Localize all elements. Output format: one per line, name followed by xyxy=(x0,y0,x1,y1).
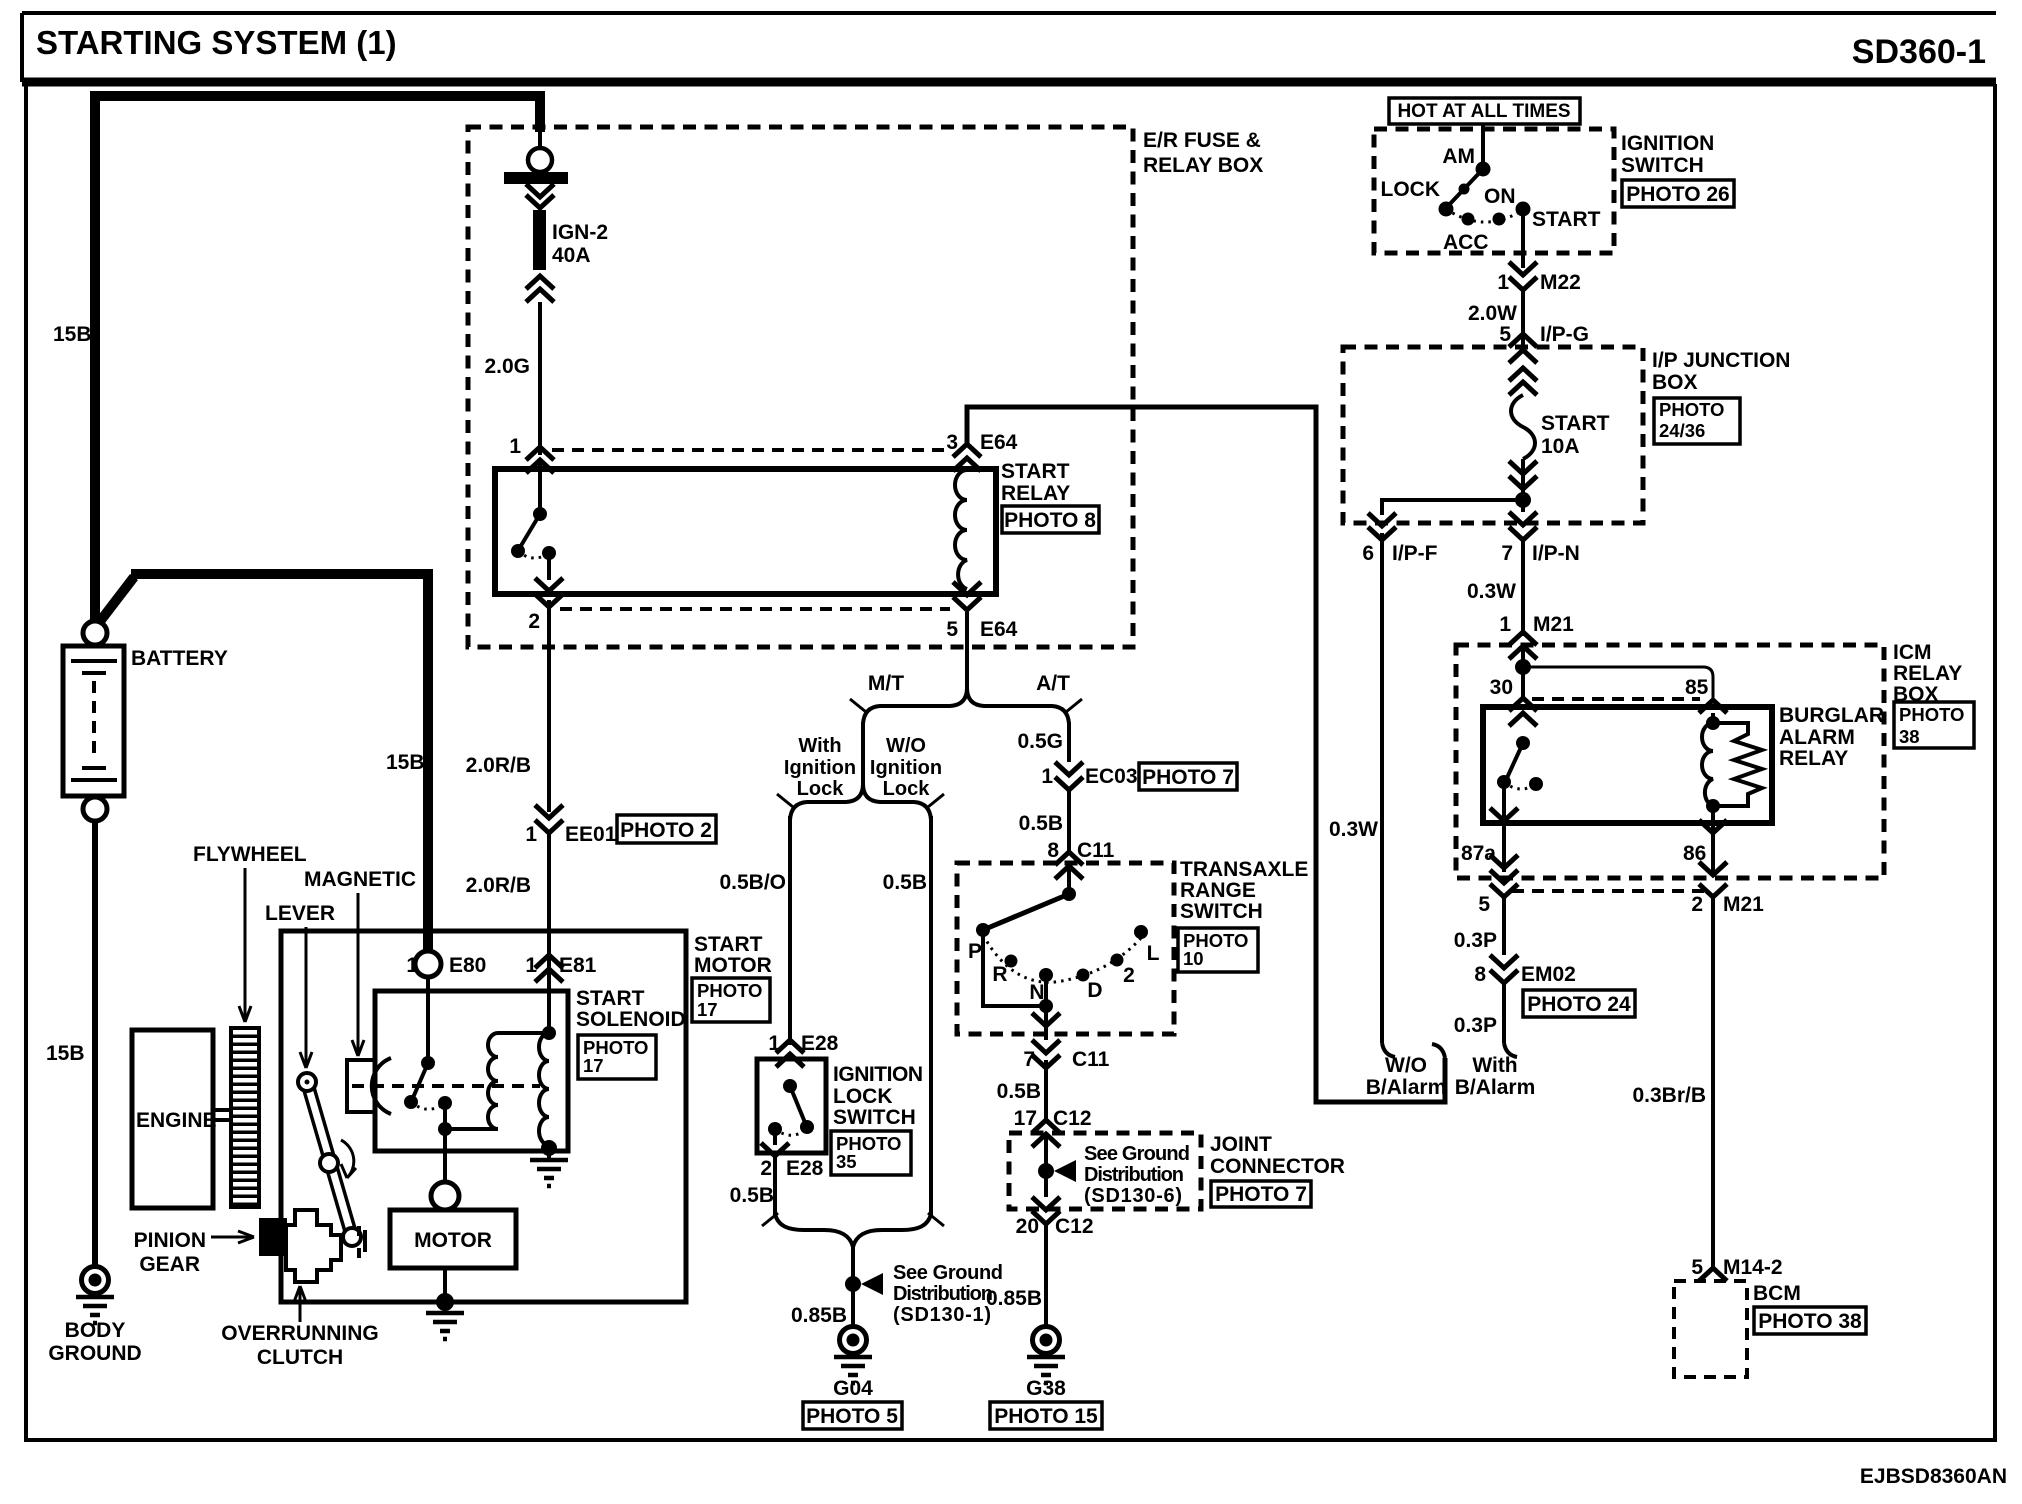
solenoid junction to coils xyxy=(438,1103,498,1136)
svg-text:START: START xyxy=(1001,460,1070,483)
svg-text:E64: E64 xyxy=(980,618,1018,641)
motor box xyxy=(390,1210,516,1268)
svg-text:C11: C11 xyxy=(1077,839,1115,862)
svg-text:17: 17 xyxy=(583,1055,604,1076)
ignition lock switch box xyxy=(757,1059,826,1153)
label box PHOTO 24/36 xyxy=(1654,398,1740,444)
fuse holder chevrons xyxy=(526,184,554,197)
engine box xyxy=(132,1030,213,1208)
wire I/P-F down to alarm select xyxy=(1380,533,1384,1043)
label W/O B/Alarm xyxy=(1366,1054,1447,1099)
svg-text:0.85B: 0.85B xyxy=(791,1304,847,1327)
svg-text:3: 3 xyxy=(946,431,958,454)
svg-text:17: 17 xyxy=(697,999,718,1020)
relay coil xyxy=(953,444,981,610)
label ICM RELAY BOX xyxy=(1893,641,1962,706)
pin 3 E64 labels xyxy=(946,431,1017,454)
E28 pin1 labels xyxy=(768,1032,838,1055)
svg-text:E80: E80 xyxy=(449,954,486,977)
svg-text:0.85B: 0.85B xyxy=(986,1287,1042,1310)
I/P-G pin5 labels xyxy=(1499,323,1589,346)
contact D xyxy=(1077,969,1090,982)
label IGN-2 40A xyxy=(552,221,608,267)
label BODY GROUND xyxy=(48,1319,141,1365)
ground symbol G04 xyxy=(834,1357,872,1383)
contact N xyxy=(1039,968,1053,982)
svg-text:C11: C11 xyxy=(1072,1048,1110,1071)
label See Ground Distribution (SD130-1) xyxy=(893,1262,1003,1326)
svg-text:LEVER: LEVER xyxy=(265,902,335,925)
ICM relay box (dashed) xyxy=(1456,645,1884,878)
E81 labels xyxy=(525,954,596,977)
svg-text:START: START xyxy=(694,933,763,956)
hook bottom of I/P-F wire xyxy=(1382,1043,1395,1057)
svg-text:STARTING SYSTEM (1): STARTING SYSTEM (1) xyxy=(36,24,397,61)
wire 15B battery to start motor E80 (thick) xyxy=(98,574,428,950)
label JOINT CONNECTOR xyxy=(1210,1133,1345,1178)
label START RELAY xyxy=(1001,460,1070,505)
relay socket frame xyxy=(1523,667,1713,700)
C11 pin7 labels xyxy=(1023,1048,1109,1071)
svg-text:86: 86 xyxy=(1683,842,1706,865)
M14-2 chevron xyxy=(1699,1268,1727,1281)
svg-text:R: R xyxy=(992,963,1007,986)
svg-text:M21: M21 xyxy=(1533,613,1574,636)
svg-text:A/T: A/T xyxy=(1036,672,1070,695)
EE01 labels xyxy=(525,823,616,846)
fuse bottom chevrons xyxy=(1509,461,1537,489)
svg-text:10: 10 xyxy=(1183,948,1204,969)
C12 pin17 chevrons xyxy=(1032,1120,1060,1147)
label box PHOTO 8 xyxy=(1002,506,1099,533)
battery bottom terminal xyxy=(83,797,107,821)
svg-text:0.5B: 0.5B xyxy=(883,871,927,894)
svg-text:2: 2 xyxy=(1123,964,1135,987)
EM02 labels xyxy=(1474,963,1576,986)
svg-text:EJBSD8360AN: EJBSD8360AN xyxy=(1860,1465,2007,1488)
label box PHOTO 38 bcm xyxy=(1754,1307,1866,1334)
engine flywheel link xyxy=(213,1110,230,1120)
svg-text:BOX: BOX xyxy=(1652,371,1698,394)
label box PHOTO 38 icm xyxy=(1894,702,1974,748)
fuse bottom chevrons xyxy=(526,276,554,289)
battery B1 xyxy=(63,646,124,796)
label IGNITION LOCK SWITCH xyxy=(833,1063,923,1129)
svg-text:CLUTCH: CLUTCH xyxy=(257,1346,343,1369)
svg-text:LOCK: LOCK xyxy=(1381,178,1441,201)
svg-text:EC03: EC03 xyxy=(1085,765,1138,788)
pin 86 chevrons xyxy=(1699,806,1727,875)
label START 10A xyxy=(1541,412,1610,458)
svg-text:(SD130-1): (SD130-1) xyxy=(893,1304,991,1326)
svg-text:1: 1 xyxy=(1497,271,1509,294)
pin 85 chevron xyxy=(1699,700,1727,713)
svg-text:M22: M22 xyxy=(1540,271,1581,294)
dashed link pin2 to pin5 xyxy=(560,607,950,611)
HOT AT ALL TIMES box xyxy=(1389,98,1580,124)
svg-text:E81: E81 xyxy=(559,954,597,977)
svg-text:1: 1 xyxy=(509,435,521,458)
svg-text:40A: 40A xyxy=(552,244,591,267)
label START SOLENOID xyxy=(576,987,686,1031)
svg-text:Distribution: Distribution xyxy=(1084,1164,1184,1186)
M22 labels xyxy=(1497,271,1581,294)
svg-text:I/P-F: I/P-F xyxy=(1392,542,1438,565)
ignition switch contacts xyxy=(1439,162,1531,226)
burglar relay coil xyxy=(1702,713,1720,813)
dashed link 30 to 85 xyxy=(1532,697,1700,701)
ignition switch position labels xyxy=(1381,145,1601,254)
svg-text:BCM: BCM xyxy=(1753,1282,1801,1305)
svg-text:2.0G: 2.0G xyxy=(484,355,530,378)
contact R xyxy=(1005,955,1018,968)
svg-text:5: 5 xyxy=(946,618,958,641)
svg-text:Lock: Lock xyxy=(883,778,931,800)
M21 pin5 pin2 labels xyxy=(1478,893,1764,916)
transaxle contact arc xyxy=(983,935,1141,982)
svg-text:Lock: Lock xyxy=(797,778,845,800)
pin 87a 86 labels xyxy=(1461,842,1706,865)
connector E28 pin1 chevrons xyxy=(776,1040,804,1067)
svg-text:I/P-N: I/P-N xyxy=(1532,542,1580,565)
svg-text:1: 1 xyxy=(525,823,537,846)
svg-text:17: 17 xyxy=(1014,1107,1037,1130)
wire EM02 to alarm select xyxy=(1502,983,1506,1043)
svg-text:0.5G: 0.5G xyxy=(1017,730,1063,753)
burglar alarm relay box xyxy=(1483,707,1772,823)
wire with-lock branch down to E28 xyxy=(788,816,792,1045)
svg-text:PHOTO 8: PHOTO 8 xyxy=(1004,509,1096,532)
svg-text:START: START xyxy=(1541,412,1610,435)
wire w/o-lock branch down to merge xyxy=(929,816,933,1218)
lever arm xyxy=(298,1073,361,1246)
svg-text:0.5B: 0.5B xyxy=(997,1080,1041,1103)
svg-text:RELAY: RELAY xyxy=(1893,662,1962,685)
lever rotation arrow xyxy=(341,1140,356,1178)
svg-text:B/Alarm: B/Alarm xyxy=(1366,1076,1447,1099)
svg-text:E/R FUSE &: E/R FUSE & xyxy=(1143,129,1261,152)
start solenoid box xyxy=(375,991,568,1151)
svg-text:5: 5 xyxy=(1499,323,1511,346)
wire battery negative to body ground xyxy=(92,821,98,1266)
solenoid pull-in coil xyxy=(488,1033,549,1129)
svg-text:MAGNETIC: MAGNETIC xyxy=(304,868,416,891)
wire solenoid to motor xyxy=(443,1129,447,1182)
svg-text:0.3P: 0.3P xyxy=(1454,929,1497,952)
label box PHOTO 2 xyxy=(617,815,716,843)
svg-text:EM02: EM02 xyxy=(1521,963,1576,986)
svg-text:20: 20 xyxy=(1016,1215,1039,1238)
svg-text:M21: M21 xyxy=(1723,893,1764,916)
svg-text:I/P JUNCTION: I/P JUNCTION xyxy=(1652,349,1790,372)
wire fuse to junction dot xyxy=(1521,459,1525,512)
wire relay pin2 down to EE01 xyxy=(547,600,551,812)
svg-text:G04: G04 xyxy=(833,1377,873,1400)
fuse START 10A xyxy=(1511,395,1535,459)
svg-text:2: 2 xyxy=(1691,893,1703,916)
label box PHOTO 24 xyxy=(1523,990,1635,1017)
svg-text:GEAR: GEAR xyxy=(139,1253,200,1276)
svg-text:35: 35 xyxy=(836,1151,857,1172)
svg-text:G38: G38 xyxy=(1026,1377,1066,1400)
svg-text:L: L xyxy=(1147,942,1160,965)
overrunning clutch assembly xyxy=(286,1210,365,1282)
svg-text:With: With xyxy=(798,735,841,757)
mechanical link dashed xyxy=(352,1084,540,1088)
connector pin1 chevrons xyxy=(526,447,554,460)
svg-text:START: START xyxy=(576,987,645,1010)
burglar relay switch xyxy=(1490,736,1543,821)
fuse terminal circle xyxy=(528,148,552,172)
body ground terminal xyxy=(82,1267,109,1294)
svg-text:START: START xyxy=(1532,208,1601,231)
svg-text:IGNITION: IGNITION xyxy=(833,1063,923,1086)
I/P-F labels xyxy=(1362,542,1437,565)
svg-text:8: 8 xyxy=(1047,839,1059,862)
svg-text:38: 38 xyxy=(1899,726,1920,747)
svg-text:Distribution: Distribution xyxy=(893,1283,993,1305)
svg-text:OVERRUNNING: OVERRUNNING xyxy=(221,1322,379,1345)
svg-text:1: 1 xyxy=(525,954,537,977)
svg-text:0.5B: 0.5B xyxy=(730,1184,774,1207)
svg-text:ON: ON xyxy=(1484,185,1516,208)
junction dot IP xyxy=(1515,492,1531,508)
wire E81 into solenoid xyxy=(542,972,556,1040)
label box PHOTO 5 xyxy=(803,1402,902,1429)
dashed link pin1 to pin3 xyxy=(552,448,950,452)
solenoid hold coil xyxy=(539,1033,549,1145)
svg-text:E28: E28 xyxy=(786,1157,824,1180)
svg-text:IGNITION: IGNITION xyxy=(1621,132,1714,155)
svg-text:RANGE: RANGE xyxy=(1180,879,1256,902)
M21 pin1 chevrons xyxy=(1509,632,1537,659)
page frame title band xyxy=(22,13,1996,82)
I/P-G connector chevrons xyxy=(1509,334,1537,395)
svg-text:10A: 10A xyxy=(1541,435,1580,458)
wire EC03 to C11 xyxy=(1067,790,1071,852)
svg-text:1: 1 xyxy=(1041,765,1053,788)
wire fuse to relay pin 1 xyxy=(538,302,542,455)
svg-text:PHOTO: PHOTO xyxy=(1659,399,1724,420)
svg-text:8: 8 xyxy=(1474,963,1486,986)
battery top terminal xyxy=(83,621,107,645)
hook top of riser xyxy=(1432,1044,1445,1058)
svg-text:30: 30 xyxy=(1490,676,1513,699)
label START MOTOR xyxy=(694,933,772,977)
ignition switch box (dashed) xyxy=(1374,129,1614,253)
svg-text:0.3W: 0.3W xyxy=(1329,818,1378,841)
svg-text:FLYWHEEL: FLYWHEEL xyxy=(193,843,307,866)
motor terminal circle xyxy=(431,1182,459,1210)
svg-text:MOTOR: MOTOR xyxy=(414,1229,492,1252)
svg-text:SWITCH: SWITCH xyxy=(1180,900,1263,923)
wire 86 to M21 pin2 to BCM xyxy=(1699,884,1727,1268)
svg-text:15B: 15B xyxy=(386,751,425,774)
ignition switch AM feed xyxy=(1481,124,1485,169)
relay pin2 chevrons xyxy=(535,553,563,607)
svg-text:With: With xyxy=(1472,1054,1517,1077)
svg-text:PHOTO 38: PHOTO 38 xyxy=(1758,1310,1862,1333)
svg-text:2: 2 xyxy=(760,1157,772,1180)
svg-text:0.3Br/B: 0.3Br/B xyxy=(1632,1084,1706,1107)
svg-text:E28: E28 xyxy=(801,1032,839,1055)
svg-text:PHOTO: PHOTO xyxy=(697,980,762,1001)
connector EM02 chevrons xyxy=(1490,955,1518,983)
svg-text:BODY: BODY xyxy=(65,1319,126,1342)
svg-text:See Ground: See Ground xyxy=(893,1262,1003,1284)
svg-text:LOCK: LOCK xyxy=(833,1085,893,1108)
svg-text:M/T: M/T xyxy=(868,672,904,695)
pin 30 chevrons xyxy=(1509,698,1537,726)
burglar relay resistor xyxy=(1713,723,1762,806)
transaxle position labels xyxy=(968,940,1160,1004)
ignition lock split xyxy=(777,784,944,820)
wire M21 into ICM xyxy=(1521,648,1525,700)
svg-text:GROUND: GROUND xyxy=(48,1342,141,1365)
label W/O Ignition Lock xyxy=(870,735,942,800)
svg-text:BATTERY: BATTERY xyxy=(131,647,228,670)
junction dot 30 xyxy=(1515,659,1531,675)
svg-text:BURGLAR: BURGLAR xyxy=(1779,704,1884,727)
E/R fuse and relay box (dashed) xyxy=(468,127,1133,647)
start motor outer box xyxy=(281,931,686,1302)
label BURGLAR ALARM RELAY xyxy=(1779,704,1884,770)
label TRANSAXLE RANGE SWITCH xyxy=(1180,858,1308,923)
branch to I/P-F xyxy=(1382,500,1523,515)
pin 87a chevrons xyxy=(1490,812,1518,883)
wire relay coil to ICM feed (right run) xyxy=(967,407,1445,1102)
label E/R FUSE & RELAY BOX xyxy=(1143,129,1263,177)
flywheel hatched xyxy=(231,1028,259,1207)
solenoid coil ground xyxy=(530,1140,568,1186)
leader magnetic xyxy=(352,893,364,1056)
connector M22 chevrons xyxy=(1509,262,1537,290)
svg-text:15B: 15B xyxy=(46,1042,85,1065)
svg-text:1: 1 xyxy=(1499,613,1511,636)
svg-text:PINION: PINION xyxy=(134,1229,206,1252)
svg-text:P: P xyxy=(968,940,982,963)
wire C11 to C12 xyxy=(1044,1060,1048,1120)
svg-text:PHOTO: PHOTO xyxy=(1899,704,1964,725)
svg-text:RELAY BOX: RELAY BOX xyxy=(1143,154,1263,177)
svg-text:RELAY: RELAY xyxy=(1001,482,1070,505)
svg-text:HOT AT ALL TIMES: HOT AT ALL TIMES xyxy=(1397,101,1570,122)
svg-text:PHOTO 7: PHOTO 7 xyxy=(1142,766,1234,789)
svg-text:PHOTO 5: PHOTO 5 xyxy=(806,1405,898,1428)
svg-text:15B: 15B xyxy=(53,323,92,346)
pinion gear block xyxy=(259,1218,287,1256)
svg-text:JOINT: JOINT xyxy=(1210,1133,1272,1156)
label box PHOTO 26 xyxy=(1622,180,1734,207)
C12 pin20 labels xyxy=(1016,1215,1094,1238)
wire A/T branch down xyxy=(1067,722,1071,762)
svg-text:1: 1 xyxy=(406,954,418,977)
wire lock switch to merge xyxy=(773,1157,777,1216)
svg-text:7: 7 xyxy=(1023,1048,1035,1071)
label box PHOTO 7 joint xyxy=(1211,1181,1311,1207)
svg-text:C12: C12 xyxy=(1053,1107,1092,1130)
hook bottom of EM02 wire xyxy=(1504,1043,1517,1057)
svg-text:IGN-2: IGN-2 xyxy=(552,221,608,244)
pin 5 E64 labels xyxy=(946,618,1017,641)
start relay box xyxy=(495,469,996,594)
I/P junction box (dashed) xyxy=(1343,347,1643,523)
svg-text:SWITCH: SWITCH xyxy=(833,1106,916,1129)
wire EE01 to E81 xyxy=(547,833,551,991)
joint connector box (dashed) xyxy=(1009,1133,1201,1209)
wire M22 to IP junction xyxy=(1521,290,1525,345)
ground distribution junction G04 xyxy=(845,1273,883,1295)
I/P-F chevron xyxy=(1368,513,1396,540)
ground terminal G04 xyxy=(840,1327,867,1354)
relay switch xyxy=(511,462,556,560)
svg-text:PHOTO 2: PHOTO 2 xyxy=(620,819,712,842)
svg-text:24/36: 24/36 xyxy=(1659,420,1705,441)
svg-text:ICM: ICM xyxy=(1893,641,1932,664)
svg-text:0.3P: 0.3P xyxy=(1454,1014,1497,1037)
connector EC03 chevrons xyxy=(1055,762,1083,790)
label box PHOTO 17 solenoid xyxy=(578,1035,656,1079)
wire START to M22 xyxy=(1521,209,1525,268)
svg-text:6: 6 xyxy=(1362,542,1374,565)
wire M/T branch down xyxy=(861,722,865,788)
transaxle switch lever xyxy=(983,866,1076,930)
terminal E80 xyxy=(415,951,441,977)
svg-text:0.5B: 0.5B xyxy=(1019,812,1063,835)
svg-text:RELAY: RELAY xyxy=(1779,747,1848,770)
fuse holder bar xyxy=(504,172,568,184)
svg-text:ACC: ACC xyxy=(1443,231,1489,254)
label PINION GEAR xyxy=(134,1229,254,1276)
contact L xyxy=(1134,925,1148,939)
label With B/Alarm xyxy=(1455,1054,1536,1099)
solenoid switch xyxy=(404,977,452,1110)
svg-text:SOLENOID: SOLENOID xyxy=(576,1008,686,1031)
C12 pin17 labels xyxy=(1014,1107,1092,1130)
svg-text:87a: 87a xyxy=(1461,842,1496,865)
C11 pin7 chevrons xyxy=(1032,1040,1060,1068)
merge bracket with/wo lock xyxy=(762,1213,944,1247)
svg-text:PHOTO 7: PHOTO 7 xyxy=(1215,1183,1307,1206)
svg-text:CONNECTOR: CONNECTOR xyxy=(1210,1155,1345,1178)
wire C12 to G38 xyxy=(1044,1224,1048,1327)
ground terminal G38 xyxy=(1033,1327,1060,1354)
ignition lock switch contacts xyxy=(761,1079,814,1156)
svg-text:0.3W: 0.3W xyxy=(1467,580,1516,603)
svg-text:Ignition: Ignition xyxy=(784,757,856,779)
connector EE01 chevrons xyxy=(535,805,563,833)
label IGNITION SWITCH xyxy=(1621,132,1714,177)
transaxle range switch box (dashed) xyxy=(957,863,1174,1034)
I/P-N labels xyxy=(1501,542,1580,565)
svg-text:ALARM: ALARM xyxy=(1779,726,1855,749)
svg-text:7: 7 xyxy=(1501,542,1513,565)
svg-text:W/O: W/O xyxy=(1385,1054,1427,1077)
svg-text:0.5B/O: 0.5B/O xyxy=(719,871,786,894)
label box PHOTO 15 xyxy=(990,1402,1102,1429)
svg-text:85: 85 xyxy=(1685,676,1709,699)
svg-text:EE01: EE01 xyxy=(565,823,617,846)
svg-text:PHOTO 26: PHOTO 26 xyxy=(1626,183,1729,206)
svg-text:2.0W: 2.0W xyxy=(1468,302,1517,325)
svg-text:MOTOR: MOTOR xyxy=(694,954,772,977)
contact 2 xyxy=(1111,954,1124,967)
E28 pin2 labels xyxy=(760,1157,823,1180)
svg-text:I/P-G: I/P-G xyxy=(1540,323,1589,346)
C11 pin8 labels xyxy=(1047,839,1114,862)
C11 pin8 chevrons xyxy=(1055,852,1083,879)
ground symbol G38 xyxy=(1027,1357,1065,1383)
